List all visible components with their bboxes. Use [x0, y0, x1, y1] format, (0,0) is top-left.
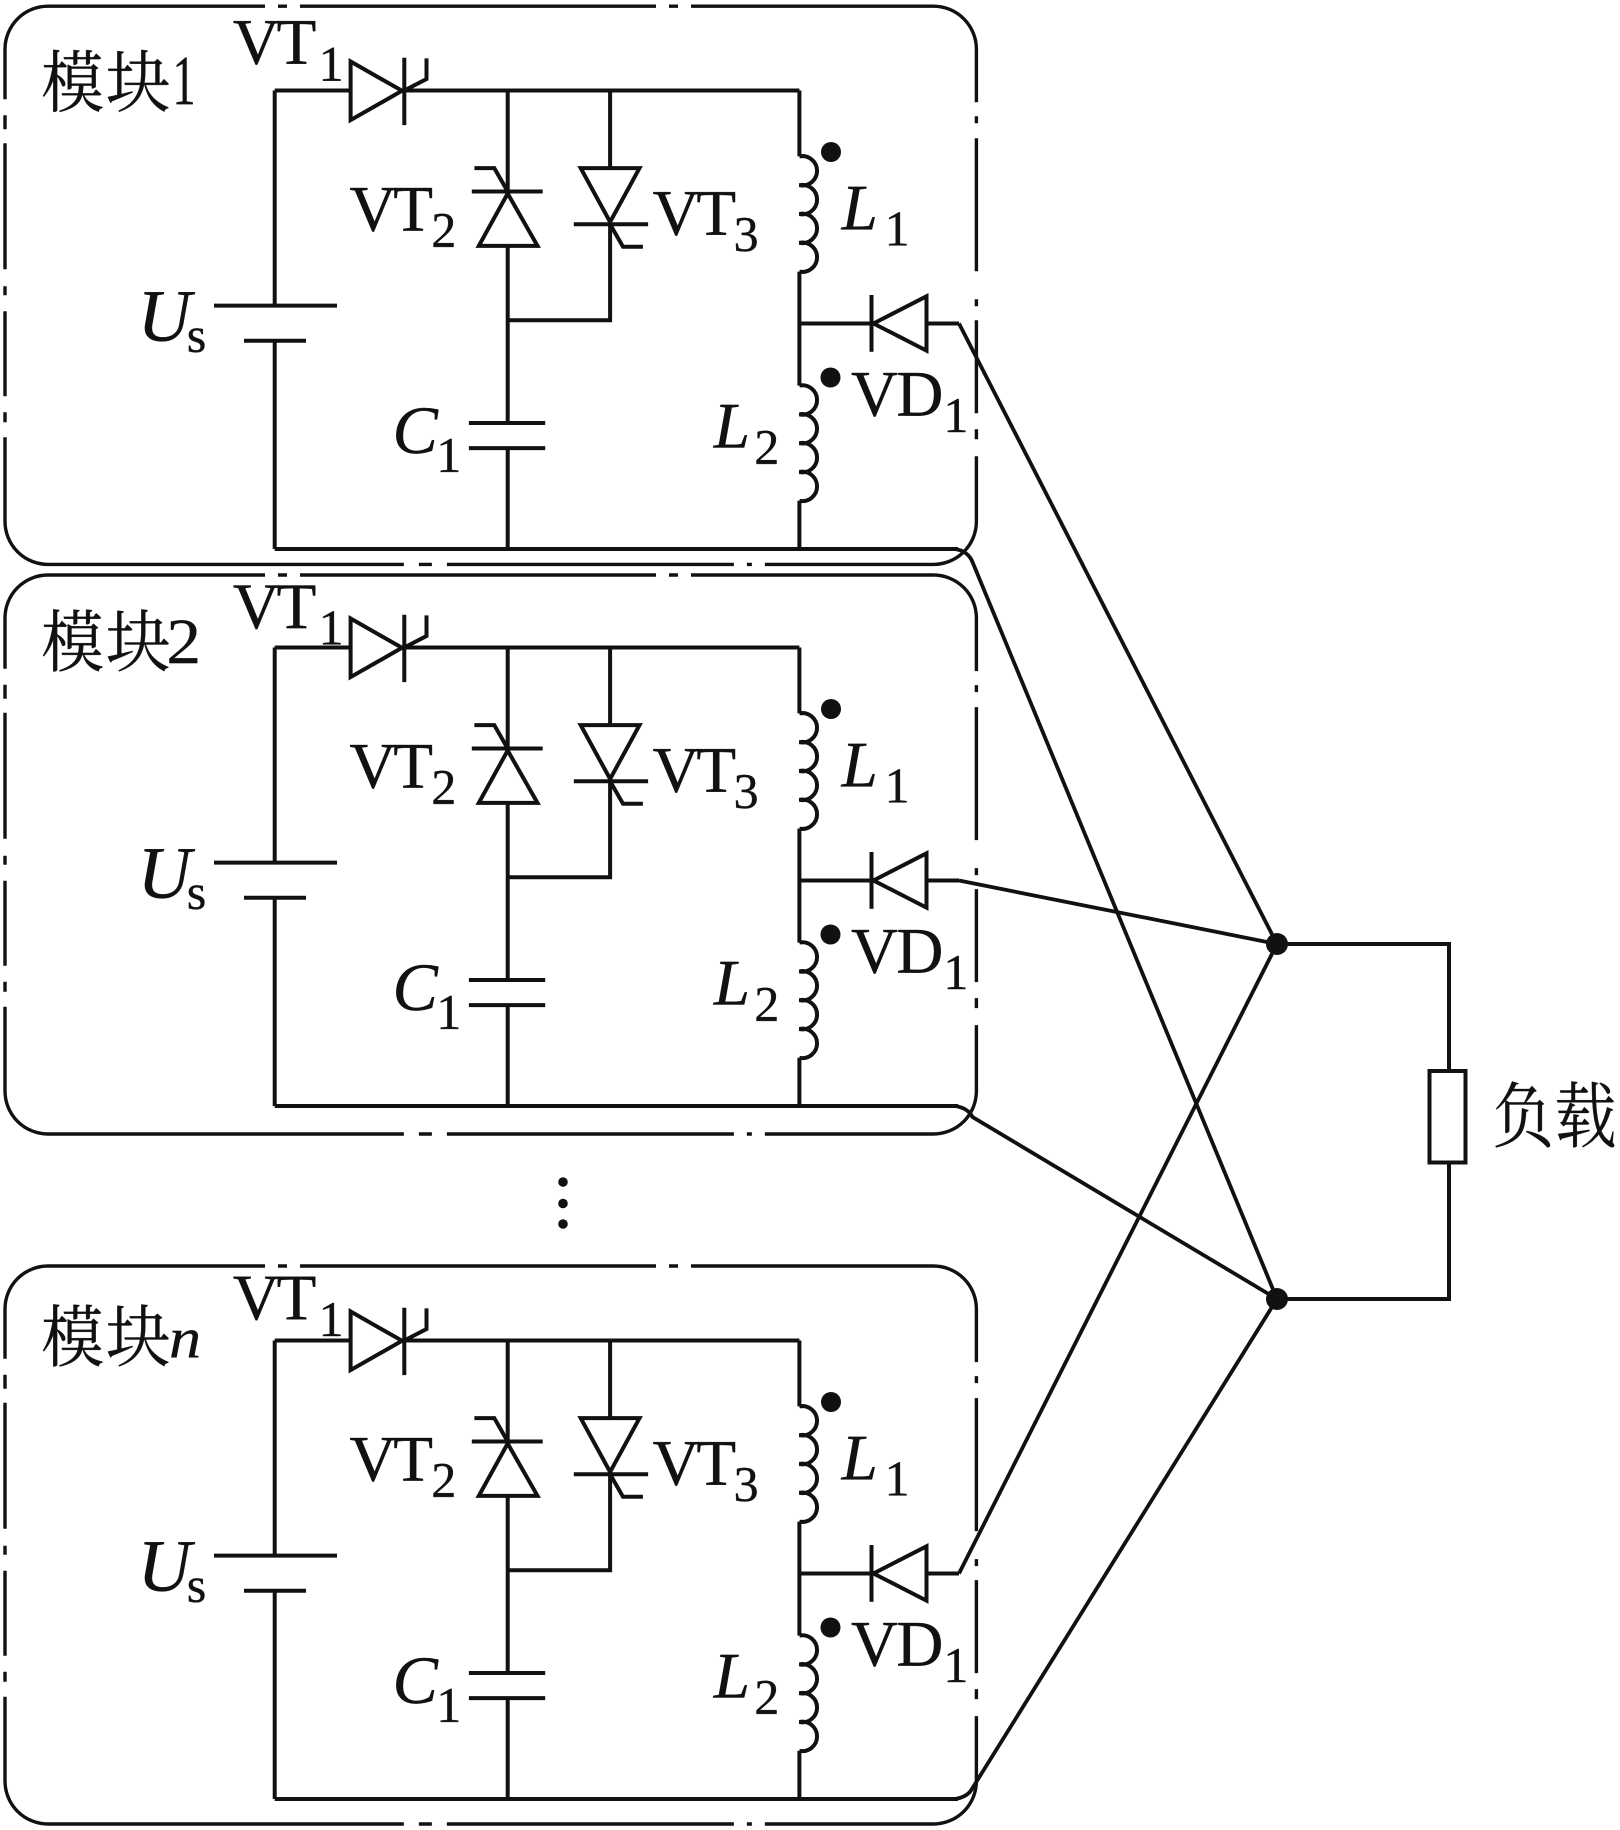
thyristor VT2 module n [472, 1418, 543, 1496]
wire: C1 to bottom rail module 1 [506, 448, 510, 549]
inductor L1 module 2 [799, 713, 817, 829]
wire: top rail to L1 module 1 [797, 91, 801, 157]
label VT2 module n [350, 1438, 453, 1497]
label L1 module 1 [841, 187, 907, 246]
wire: VT3 branch down and across to VT2 branch module 1 [508, 224, 610, 320]
wire: left branch to Us module 2 [273, 648, 277, 863]
phase dot of L2 module 1 [821, 368, 841, 388]
label VT1 module n [234, 1277, 341, 1336]
wire: module 1 VD1 output to node A [959, 324, 1277, 945]
phase dot of L1 module 1 [821, 142, 841, 162]
diode VD1 module 1 [799, 295, 959, 352]
wire: module 2 VD1 output to node A [959, 881, 1277, 945]
wire: VT2 branch top module n [506, 1341, 510, 1442]
wire: bottom rail module n [275, 1797, 958, 1801]
wire: VT3 branch top module 1 [608, 91, 612, 169]
label VT2 module 2 [350, 745, 453, 804]
inductor L1 module 1 [799, 156, 817, 272]
label L2 module 2 [713, 962, 776, 1021]
voltage source Us module 2 [214, 863, 337, 898]
label VT3 module n [653, 1442, 756, 1501]
wire: L1 to L2 through VD1 junction module 2 [797, 829, 801, 943]
label Us module 2 [144, 849, 204, 909]
label L1 module 2 [841, 744, 907, 803]
inductor L2 module 2 [799, 942, 817, 1058]
wire: module n bottom rail to node B [955, 1299, 1277, 1799]
phase dot of L1 module n [821, 1392, 841, 1412]
node B lower junction [1266, 1288, 1288, 1310]
vertical ellipsis between module 2 and module n [558, 1177, 568, 1229]
wire: top rail to L1 module n [797, 1341, 801, 1407]
thyristor VT3 module 1 [574, 168, 648, 247]
wire: L2 to bottom rail module 1 [797, 501, 801, 549]
label VT3 module 2 [653, 749, 756, 808]
label VD1 module 1 [852, 373, 966, 432]
thyristor VT1 module 1 [351, 58, 427, 125]
wire: load to node B [1277, 1163, 1449, 1300]
thyristor VT3 module n [574, 1418, 648, 1497]
wire: top rail module 2 [275, 646, 800, 650]
wire: VT3 branch down and across to VT2 branch module n [508, 1474, 610, 1570]
label Us module n [144, 1542, 204, 1602]
wire: bottom rail module 2 [275, 1104, 958, 1108]
wire: VT2 branch top module 2 [506, 648, 510, 749]
capacitor C1 module 2 [469, 980, 545, 1005]
label VT1 module 1 [234, 21, 341, 81]
diode VD1 module 2 [799, 852, 959, 909]
inductor L2 module 1 [799, 385, 817, 501]
wire: L1 to L2 through VD1 junction module 1 [797, 272, 801, 386]
capacitor C1 module n [469, 1673, 545, 1698]
load resistor [1430, 1071, 1466, 1163]
node A upper junction [1266, 933, 1288, 955]
module 2 name label [43, 609, 197, 671]
label L2 module n [713, 1655, 776, 1714]
wire: bottom rail module 1 [275, 547, 958, 551]
thyristor VT3 module 2 [574, 725, 648, 804]
thyristor VT2 module 2 [472, 725, 543, 803]
module n name label [43, 1304, 199, 1366]
thyristor VT1 module n [351, 1308, 427, 1375]
wire: left branch Us to bottom rail module n [273, 1591, 277, 1799]
label VT3 module 1 [653, 192, 756, 251]
diode VD1 module n [799, 1545, 959, 1602]
label VD1 module n [852, 1623, 966, 1682]
inductor L2 module n [799, 1635, 817, 1751]
phase dot of L2 module n [821, 1618, 841, 1638]
wire: module 2 bottom rail to node B [955, 1106, 1277, 1299]
wire: module n VD1 output to node A [959, 944, 1277, 1574]
wire: left branch Us to bottom rail module 2 [273, 898, 277, 1106]
wire: left branch to Us module 1 [273, 91, 277, 306]
label C1 module 1 [396, 408, 458, 472]
wire: node A to load [1277, 944, 1449, 1071]
wire: VT2 branch to C1 module n [506, 1496, 510, 1673]
phase dot of L1 module 2 [821, 699, 841, 719]
wire: VT3 branch top module n [608, 1341, 612, 1419]
wire: L2 to bottom rail module n [797, 1751, 801, 1799]
wire: VT3 branch down and across to VT2 branch module 2 [508, 781, 610, 877]
phase dot of L2 module 2 [821, 925, 841, 945]
module 2 dash-dot boundary box [5, 575, 976, 1134]
voltage source Us module 1 [214, 306, 337, 341]
wire: VT2 branch to C1 module 2 [506, 803, 510, 980]
voltage source Us module n [214, 1556, 337, 1591]
wire: module 1 bottom rail to node B [955, 549, 1277, 1299]
thyristor VT1 module 2 [351, 615, 427, 682]
module n dash-dot boundary box [5, 1266, 976, 1824]
label C1 module 2 [396, 965, 458, 1029]
label L2 module 1 [713, 405, 776, 464]
inductor L1 module n [799, 1406, 817, 1522]
label C1 module n [396, 1658, 458, 1722]
module 1 dash-dot boundary box [5, 6, 976, 564]
label L1 module n [841, 1437, 907, 1496]
wire: L2 to bottom rail module 2 [797, 1058, 801, 1106]
wire: left branch to Us module n [273, 1341, 277, 1556]
wire: top rail module 1 [275, 89, 800, 93]
capacitor C1 module 1 [469, 423, 545, 448]
wire: VT3 branch top module 2 [608, 648, 612, 726]
wire: top rail to L1 module 2 [797, 648, 801, 714]
thyristor VT2 module 1 [472, 168, 543, 246]
label VD1 module 2 [852, 930, 966, 989]
label VT1 module 2 [234, 586, 341, 645]
label VT2 module 1 [350, 188, 453, 247]
wire: C1 to bottom rail module 2 [506, 1005, 510, 1106]
wire: left branch Us to bottom rail module 1 [273, 341, 277, 549]
wire: VT2 branch to C1 module 1 [506, 246, 510, 423]
label 负载 (load) [1496, 1081, 1615, 1147]
module 1 name label [43, 50, 193, 112]
wire: VT2 branch top module 1 [506, 91, 510, 192]
wire: top rail module n [275, 1339, 800, 1343]
label Us module 1 [144, 292, 204, 352]
wire: L1 to L2 through VD1 junction module n [797, 1522, 801, 1636]
wire: C1 to bottom rail module n [506, 1698, 510, 1799]
